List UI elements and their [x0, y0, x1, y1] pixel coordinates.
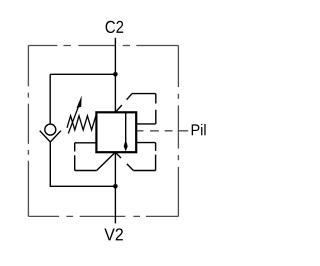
wire: C2 vertical line — [114, 38, 116, 113]
pilot path upper-right: diagonal dashes — [115, 94, 132, 113]
seat legs below valve: left diagonal — [97, 152, 116, 170]
pilot path upper-right: return horizontal to valve — [136, 123, 155, 125]
flow path line inside valve — [125, 112, 127, 143]
pilot path lower-right: bottom horizontal — [133, 170, 155, 172]
component envelope bottom side (dash-dot) — [28, 215, 178, 217]
port label V2 — [104, 228, 123, 240]
pilot path lower-right: vertical dashes — [155, 143, 157, 171]
component envelope top side (dash-dot) — [28, 45, 178, 47]
check valve seat — [40, 131, 61, 142]
pilot line Pil (gray dashed) — [137, 130, 188, 132]
adjustment arrow head — [77, 96, 82, 108]
pilot path upper-right: vertical dashes — [155, 94, 157, 124]
wire: left loop upper vertical — [49, 74, 51, 124]
wire: left loop top horizontal — [50, 73, 115, 75]
pilot port label Pil — [192, 124, 206, 135]
component envelope right side (dash-dot) — [177, 46, 179, 217]
wire: V2 vertical line — [114, 152, 116, 223]
junction dot top — [113, 72, 118, 77]
port label C2 — [106, 21, 124, 33]
wire: left loop lower vertical — [50, 142, 115, 186]
pilot path upper-right: top horizontal — [132, 93, 156, 95]
spring (adjustable) — [67, 116, 96, 130]
pilot path lower-left: horizontal from valve left edge — [75, 142, 97, 144]
flow arrow head (down) — [124, 142, 128, 151]
check valve ball — [45, 124, 56, 135]
pilot path lower-left: vertical dashes — [74, 143, 76, 171]
adjustment arrow shaft — [68, 105, 79, 134]
junction dot bottom — [113, 184, 118, 189]
seat legs below valve: right diagonal (dashed) — [115, 152, 133, 170]
valve body U1 (square) — [96, 112, 136, 152]
pilot path lower-left: bottom horizontal — [75, 170, 97, 172]
pilot path lower-right: top horizontal from valve — [136, 142, 155, 144]
component envelope left side (dash-dot) — [27, 46, 29, 217]
